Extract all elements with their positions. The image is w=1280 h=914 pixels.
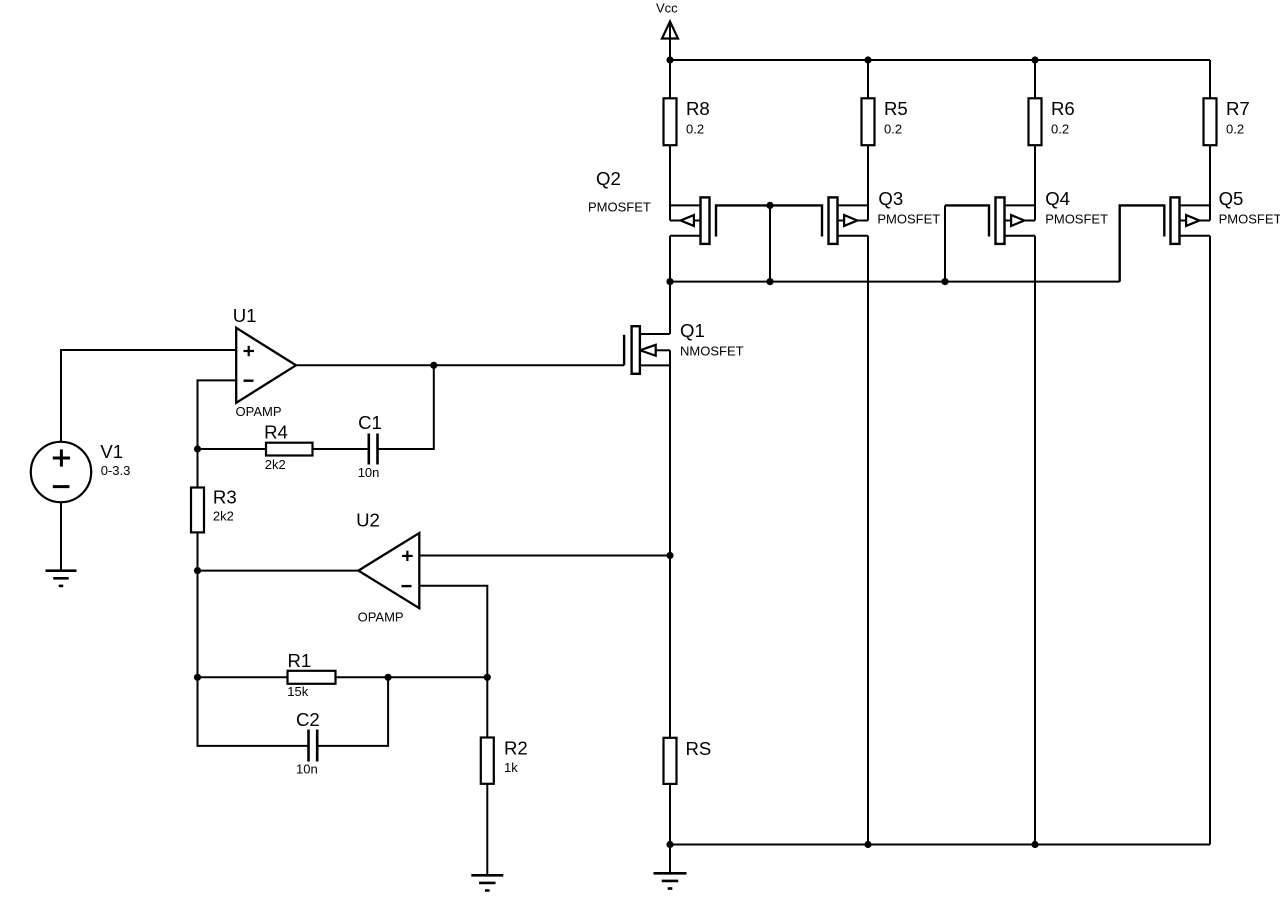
node bottom rail at RS ground [666,841,673,848]
resistor R7 [1204,98,1250,145]
svg-text:R1: R1 [288,650,312,671]
svg-text:C2: C2 [296,709,320,730]
node R1/C2 junction [385,674,392,681]
svg-text:0-3.3: 0-3.3 [101,463,131,478]
svg-text:R3: R3 [213,487,237,508]
capacitor C2 [296,709,320,776]
resistor R6 [1029,98,1075,145]
svg-text:PMOSFET: PMOSFET [1045,212,1108,227]
wire Q3 drain column down to bottom rail [867,236,869,845]
svg-text:2k2: 2k2 [213,509,234,524]
svg-text:0.2: 0.2 [1226,121,1244,136]
wire RS ground stem [669,845,671,874]
transistor Q3 with gate bar [770,188,940,244]
wire Q1 source down through RS to bottom rail [669,350,671,844]
svg-text:R6: R6 [1051,98,1075,119]
svg-text:V1: V1 [100,441,123,462]
node U1 output junction [430,362,437,369]
wire Q4 drain column down to bottom rail [1034,236,1036,845]
node Vcc rail junction at R8 [666,56,673,63]
svg-text:U2: U2 [356,510,380,531]
power Vcc symbol [656,1,678,60]
wire R1 row [198,676,488,678]
resistor RS [664,738,712,784]
resistor R8 [664,98,710,145]
svg-text:10n: 10n [358,465,380,480]
wire bottom ground rail [670,844,1210,846]
capacitor C1 [358,412,382,480]
node mirror rail at gate tie [766,278,773,285]
node bottom rail at Q3 column [864,841,871,848]
node feedback to R4 junction [194,445,201,452]
svg-text:PMOSFET: PMOSFET [588,200,651,215]
svg-text:R5: R5 [884,98,908,119]
svg-text:2k2: 2k2 [265,457,286,472]
wire U2 output to R3 node [198,570,359,572]
resistor R4 [264,421,312,471]
transistor Q2 with gate bar [588,168,770,244]
wire V1 plus to U1 noninverting input [61,350,236,442]
transistor Q4 with gate bar [945,188,1108,244]
svg-text:PMOSFET: PMOSFET [1219,212,1280,227]
svg-text:Vcc: Vcc [656,1,678,16]
svg-text:10n: 10n [296,761,318,776]
ground at RS [654,873,687,888]
svg-text:OPAMP: OPAMP [236,404,282,419]
svg-text:NMOSFET: NMOSFET [680,343,744,358]
wire column R7 upper [1209,60,1211,221]
svg-text:OPAMP: OPAMP [358,610,404,625]
wire mirror gate bias rail [670,281,1120,283]
svg-text:Q2: Q2 [596,168,621,189]
wire U2 noninverting input from RS node [419,555,670,557]
ground at R2 [471,875,503,890]
svg-text:RS: RS [686,738,712,759]
wire feedback node to R4 [198,448,267,450]
wire U1 output to Q1 gate [296,364,624,366]
transistor Q5 with gate bar [1120,188,1280,282]
node mirror rail at Q2 drain [666,278,673,285]
node R1 left junction [194,674,201,681]
wire Q2 drain down to mirror rail and Q1 [669,236,671,334]
node Q2/Q3 gate junction [766,202,773,209]
svg-text:Q1: Q1 [680,320,705,341]
svg-text:1k: 1k [504,760,518,775]
resistor R2 [481,738,528,784]
node mirror rail at Q4 gate tie [941,278,948,285]
wire column Q2/R8 upper [669,60,671,221]
transistor Q1 NMOSFET with gate bar [624,320,744,374]
node U2 noninverting at RS junction [666,552,673,559]
node Vcc rail junction at R5 [864,56,871,63]
wire top supply rail [670,59,1210,61]
svg-text:R8: R8 [686,98,710,119]
svg-text:0.2: 0.2 [884,121,902,136]
node bottom rail at Q4 column [1031,841,1038,848]
ground at V1 [46,571,77,586]
wire U1 inverting input from feedback node [198,380,309,746]
voltage source V1 [31,441,131,502]
wire C1 feedback branch up to output [378,365,434,449]
svg-text:0.2: 0.2 [686,121,704,136]
svg-text:Q3: Q3 [878,188,903,209]
svg-text:R7: R7 [1226,98,1250,119]
node R1/R2 junction [484,674,491,681]
wire V1 minus to ground [60,502,62,570]
op-amp U1 [233,305,296,419]
node Vcc rail junction at R6 [1031,56,1038,63]
svg-text:Q4: Q4 [1045,188,1070,209]
wire R2 down to ground [486,738,488,876]
resistor R1 [287,650,335,699]
svg-text:R2: R2 [504,738,528,759]
wire R4 to C1 [313,448,369,450]
wire Q5 drain column down to bottom rail [1209,236,1211,845]
wire Q4 gate down to mirror rail [944,205,946,281]
svg-text:15k: 15k [287,684,308,699]
svg-text:R4: R4 [264,421,288,442]
svg-text:Q5: Q5 [1219,188,1244,209]
resistor R5 [862,98,908,145]
node U2 output at R3 junction [194,567,201,574]
wire column R6 upper [1034,60,1036,221]
wire U2 inverting input down to R1/R2 node [419,586,487,738]
wire column R5 upper [867,60,869,221]
op-amp U2 [356,510,419,625]
wire C2 branch down from R1 node [318,677,389,746]
wire gate node Q2/Q3 down to mirror rail [769,205,771,281]
resistor R3 [191,487,237,533]
svg-text:PMOSFET: PMOSFET [877,212,940,227]
svg-text:C1: C1 [358,412,382,433]
svg-text:0.2: 0.2 [1051,121,1069,136]
svg-text:U1: U1 [233,305,257,326]
